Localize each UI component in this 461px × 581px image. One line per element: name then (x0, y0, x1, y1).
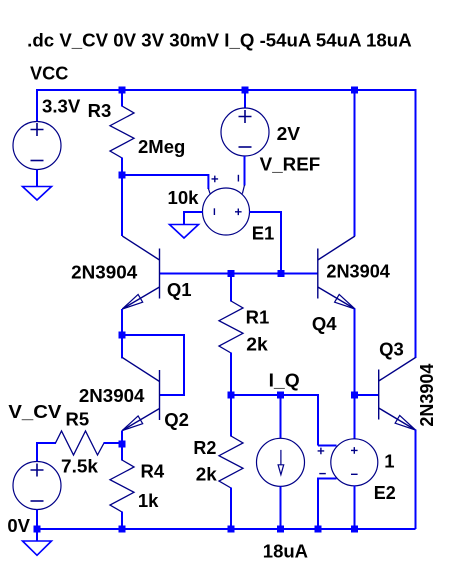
transistor Q3 2N3904 (npn) (379, 358, 416, 431)
wire E2 control plus L (318, 445, 337, 447)
voltage source V1 3.3V (13, 122, 61, 170)
resistor R1 (219, 301, 243, 353)
wire Q3 emitter stub to bottom rail (415, 430, 417, 530)
wire bottom 0V rail (37, 528, 416, 530)
E1 control pin lines (208, 185, 244, 194)
wire Q4 emitter stub down through junction to E2 top (354, 309, 356, 440)
svg-text:Q1: Q1 (167, 279, 192, 300)
wire Q2 emitter stub (121, 431, 123, 445)
svg-text:2k: 2k (196, 463, 218, 484)
svg-text:V_REF: V_REF (260, 153, 321, 174)
wire R2 bottom stub (230, 488, 232, 530)
wire R1 top stub (230, 274, 232, 302)
svg-text:E1: E1 (252, 223, 275, 244)
wire R3 bottom stub (121, 158, 123, 176)
vcvs E2 gain 1 (318, 439, 378, 486)
svg-text:Q4: Q4 (312, 313, 337, 334)
wire Q4 collector stub (354, 90, 356, 236)
svg-text:1: 1 (384, 450, 394, 471)
E1 inside minus mark (rotated, vertical) (213, 208, 215, 215)
svg-text:VCC: VCC (30, 62, 68, 83)
ground flag at E1 (170, 225, 199, 239)
E1 inside plus mark (235, 209, 242, 216)
resistor R5 (horizontal) (56, 431, 105, 455)
voltage source V_CV 0V (13, 462, 61, 510)
svg-text:3.3V: 3.3V (42, 96, 81, 117)
E2 inside plus mark (351, 447, 358, 454)
transistor Q2 2N3904 (mirrored npn, diode connected) (122, 358, 159, 431)
wire R4 bottom stub (121, 512, 123, 530)
wire top VCC rail (37, 89, 416, 91)
svg-text:2N3904: 2N3904 (416, 363, 437, 427)
wire base rail Q1 to Q4 (160, 273, 318, 275)
svg-text:1k: 1k (138, 490, 159, 511)
svg-text:2N3904: 2N3904 (79, 385, 145, 406)
resistor R3 (110, 90, 134, 175)
svg-text:2N3904: 2N3904 (326, 261, 390, 282)
wire I_Q row rail to E2 control plus (231, 395, 318, 446)
svg-text:Q3: Q3 (379, 338, 404, 359)
vcvs E1 10k (203, 175, 250, 235)
svg-text:2k: 2k (246, 333, 268, 354)
wire R2 top stub (230, 395, 232, 437)
svg-text:2N3904: 2N3904 (71, 262, 138, 283)
E2 inside minus mark (351, 473, 358, 475)
wire R5 right stub (104, 442, 123, 444)
svg-text:2V: 2V (277, 123, 301, 144)
wire VCC source top stem (36, 89, 38, 122)
svg-text:R4: R4 (141, 461, 165, 482)
wire R1 bottom stub (230, 353, 232, 396)
transistor Q1 2N3904 (mirrored npn) (122, 236, 159, 309)
svg-text:18uA: 18uA (263, 541, 308, 562)
wire E2 bottom stem (354, 486, 356, 530)
wire Q1 emitter stub (121, 309, 123, 335)
svg-text:I_Q: I_Q (269, 369, 300, 390)
current source I_Q (257, 438, 305, 486)
wire E2 control minus L down to 0V rail (318, 479, 337, 530)
wire Q3 base lead (355, 394, 379, 396)
svg-text:V_CV: V_CV (8, 401, 62, 422)
wire V_REF bottom to E1 control minus (244, 156, 246, 186)
ground flag at 0V rail (36, 529, 38, 542)
svg-text:E2: E2 (374, 482, 396, 503)
resistor R4 (110, 460, 134, 512)
E2 control minus mark (319, 473, 326, 475)
wire R3 bottom to E1 control plus (122, 175, 208, 189)
svg-text:7.5k: 7.5k (61, 456, 99, 477)
wire R3 top stub (121, 89, 123, 107)
wire I_Q source bottom stem (280, 487, 282, 530)
resistor R2 (219, 436, 243, 488)
transistor Q4 2N3904 (npn) (318, 236, 355, 309)
wire E1 left output to ground (184, 212, 203, 225)
E1 control plus mark (212, 176, 219, 183)
E2 control plus mark (318, 448, 325, 455)
wire I_Q source top stem (280, 395, 282, 439)
ground flag below V1 (23, 187, 52, 201)
wire Q1 collector stub (121, 175, 123, 236)
svg-text:R2: R2 (193, 437, 216, 458)
svg-text:10k: 10k (168, 187, 200, 208)
wire VCC source bottom stem (36, 170, 38, 188)
wire Q2 base-collector tie loop (122, 335, 184, 395)
wire V_CV top to R5 (37, 443, 56, 462)
wire R4 top stub (121, 444, 123, 461)
E1 control minus mark (237, 175, 239, 182)
svg-text:0V: 0V (7, 515, 30, 536)
voltage source V_REF 2V (221, 108, 269, 156)
svg-text:R3: R3 (88, 100, 112, 121)
wire V_REF top stem (244, 89, 246, 109)
wire right rail upper (VCC to Q3 collector) (415, 89, 417, 358)
wire Q2 collector stub (121, 335, 123, 358)
svg-text:R1: R1 (246, 306, 270, 327)
svg-text:2Meg: 2Meg (138, 136, 185, 157)
svg-text:R5: R5 (66, 409, 90, 430)
svg-text:Q2: Q2 (164, 409, 189, 430)
wire V_CV source bottom stem (36, 510, 38, 530)
svg-text:.dc V_CV 0V 3V 30mV I_Q -54uA: .dc V_CV 0V 3V 30mV I_Q -54uA 54uA 18uA (27, 30, 412, 51)
wire E1 right output down to base rail (249, 212, 281, 274)
